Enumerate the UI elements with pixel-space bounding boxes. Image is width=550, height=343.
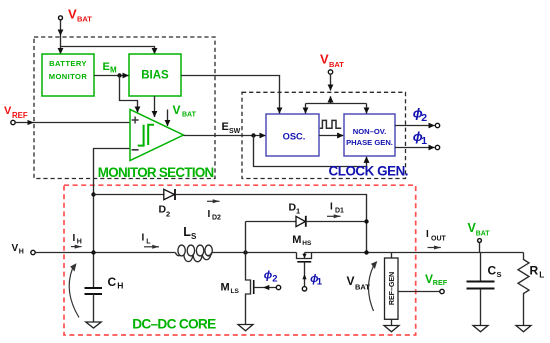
svg-text:SW: SW [229,128,241,135]
svg-text:D2: D2 [212,215,221,222]
curved arrow CH [69,269,79,318]
wire phi1 output [395,147,435,149]
svg-text:1: 1 [421,135,427,147]
svg-text:BATTERY: BATTERY [49,59,87,68]
svg-text:LS: LS [231,288,240,295]
wire switch node to D1 [245,222,247,253]
svg-text:OUT: OUT [431,236,447,243]
wire EM branch to comparator [120,76,138,113]
wire VREF to comparator plus [15,122,130,124]
terminal phi2 gate [276,285,280,289]
svg-text:V: V [320,52,329,67]
wire VBAT arrow to comparator [167,110,169,127]
wire ESW comparator to osc [184,135,266,137]
svg-text:I: I [426,229,429,240]
plus sign [132,117,139,124]
minus sign [132,149,139,151]
node VH junction [91,250,95,254]
terminal VREF input [11,120,15,124]
ground MLS [238,325,253,331]
svg-text:I: I [330,202,333,213]
svg-text:V: V [68,7,77,22]
clock waveform symbol [320,120,341,128]
svg-text:H: H [77,239,82,246]
osc box U4 [266,114,319,156]
bias box U2 [129,54,181,96]
current arrow IL [144,246,159,248]
svg-text:I: I [73,233,76,244]
ground CS [473,326,488,332]
svg-text:2: 2 [421,112,427,124]
svg-text:PHASE GEN.: PHASE GEN. [346,138,393,147]
svg-text:DC–DC CORE: DC–DC CORE [132,317,216,332]
svg-text:M: M [110,66,117,75]
wire VBAT rail to osc and phase gen [306,103,367,105]
node switching [243,250,247,254]
ref-gen block [391,253,393,259]
wire bias output to osc top [181,76,280,114]
op-amp comparator U3 [130,110,184,161]
svg-text:NON–OV.: NON–OV. [353,127,386,136]
svg-text:M: M [221,282,230,294]
svg-text:L: L [539,270,544,279]
svg-text:BAT: BAT [476,230,490,237]
node EM junction [117,73,121,77]
ground ref-gen [384,326,399,332]
ground RL [516,326,531,332]
svg-text:CLOCK GEN.: CLOCK GEN. [329,164,409,179]
wire VBAT branch to BIAS top [61,47,155,55]
current arrow ID1 [327,215,341,217]
svg-text:C: C [108,275,117,289]
capacitor CS [480,253,482,282]
svg-text:E: E [103,61,110,73]
wire main rail left [35,252,175,254]
svg-text:REF: REF [12,111,28,120]
wire osc to phase gen [319,135,343,137]
svg-text:D1: D1 [335,207,344,214]
transistor MHS [297,253,312,259]
svg-text:S: S [191,232,197,241]
hysteresis symbol [138,125,154,146]
capacitor CH [85,287,103,289]
svg-text:2: 2 [272,274,277,285]
phase gen box U5 [344,114,395,156]
wire D2 cathode [176,195,367,253]
node ESW junction [251,133,255,137]
wire VBAT clock down [330,74,332,90]
wire main rail right [212,252,297,254]
svg-text:V: V [4,105,12,117]
svg-text:E: E [222,121,229,133]
svg-text:V: V [12,243,19,254]
svg-text:HS: HS [302,240,312,247]
svg-text:H: H [117,281,123,291]
svg-text:V: V [173,103,181,117]
wire phi2 output [395,125,435,127]
node D2 branch [91,192,95,196]
terminal phi2 [435,123,439,127]
curved arrow refgen [369,266,374,311]
monitor section dashed box [34,37,215,179]
wire EM battery monitor to bias [94,75,129,77]
terminal VBAT output [478,239,482,243]
svg-text:C: C [488,264,497,278]
svg-text:OSC.: OSC. [283,131,306,141]
node D1 junction [364,219,368,223]
terminal phi1 [435,145,439,149]
node output junction [364,250,368,254]
svg-text:H: H [19,248,24,255]
inductor LS [175,245,212,262]
svg-text:I: I [142,233,145,244]
svg-text:V: V [347,274,355,288]
terminal phi1 gate [302,287,306,291]
current arrow ID2 [207,200,220,202]
svg-text:BAT: BAT [77,15,92,24]
wire bias bottom to comparator [154,96,156,117]
current arrow IOUT [428,247,441,249]
svg-text:L: L [146,238,151,245]
ground CH [86,322,101,328]
wire D1 cathode [307,221,367,223]
diode D2 [164,189,175,199]
wire D2 anode [94,194,164,196]
wire vref output [398,291,440,293]
transistor MLS [246,253,251,325]
svg-text:1: 1 [296,207,300,216]
svg-text:REF–GEN: REF–GEN [387,272,396,305]
wire ESW feedback to phase gen [254,136,367,167]
terminal VBAT clock [328,70,332,74]
battery monitor box U1 [42,54,94,96]
svg-text:1: 1 [317,277,323,288]
diode D1 [296,216,305,226]
svg-text:BAT: BAT [329,60,344,69]
svg-text:MONITOR: MONITOR [49,72,88,81]
wire VBAT to battery monitor [60,20,62,36]
wire comparator minus feedback [94,149,131,289]
dc-dc core dashed red box [64,185,416,335]
svg-text:REF: REF [433,278,448,287]
terminal vref output [440,289,444,293]
current arrow IH [71,246,82,248]
svg-text:S: S [497,270,502,279]
svg-text:I: I [208,209,211,220]
resistor RL [518,253,529,326]
svg-text:MONITOR SECTION: MONITOR SECTION [98,165,214,180]
svg-text:BAT: BAT [182,112,197,119]
terminal VBAT monitor [59,16,63,20]
svg-text:BIAS: BIAS [141,70,169,82]
clock gen dashed box [242,92,406,178]
svg-text:2: 2 [166,209,170,218]
svg-text:R: R [530,264,539,278]
svg-text:M: M [292,234,301,246]
terminal VH input [31,250,35,254]
wire D1 anode [246,221,297,223]
